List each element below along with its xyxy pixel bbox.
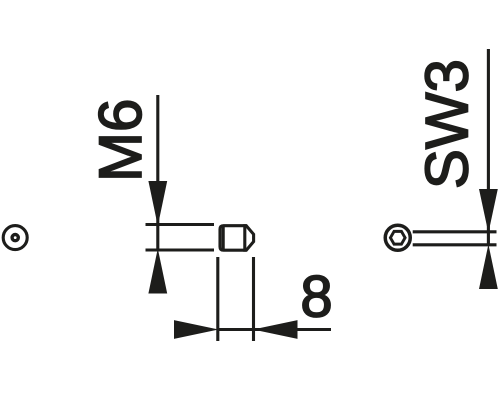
- dimension line M6 (vertical): [156, 95, 159, 250]
- end view: outer circle: [3, 226, 27, 250]
- extension line right (length 8): [252, 257, 255, 341]
- arrow up (M6 bottom): [148, 249, 167, 294]
- extension line top (hex flat top): [413, 230, 497, 233]
- extension line top (screw top face): [146, 223, 215, 226]
- dimension line 8 (horizontal): [218, 328, 331, 331]
- arrow right (8 left): [174, 320, 219, 339]
- svg-text:8: 8: [300, 265, 332, 330]
- dimension line SW3 (vertical): [487, 49, 490, 245]
- hex socket: [390, 231, 405, 244]
- svg-text:M6: M6: [87, 99, 154, 182]
- arrow left (8 right): [253, 320, 298, 339]
- socket depth line (left thick edge): [222, 225, 225, 252]
- svg-text:SW3: SW3: [413, 59, 480, 189]
- screw body outline (side view): [220, 226, 254, 251]
- chamfer shoulder line: [243, 224, 246, 252]
- extension line bottom (hex flat bottom): [413, 243, 497, 246]
- arrow down (SW3 top): [479, 189, 498, 233]
- arrow down (M6 top): [148, 181, 167, 226]
- extension line left (length 8): [216, 257, 219, 341]
- arrow up (SW3 bottom): [479, 244, 498, 289]
- socket end view: circle: [385, 225, 410, 250]
- extension line bottom (screw bottom face): [146, 248, 215, 251]
- end view: point circle: [12, 235, 18, 241]
